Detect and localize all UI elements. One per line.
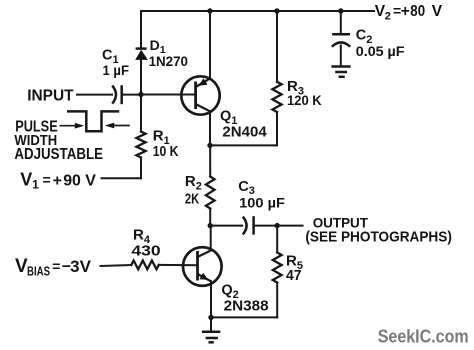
svg-text:80: 80 [410,3,425,20]
svg-text:47: 47 [286,267,302,284]
capacitor C1 [112,85,122,104]
node: rail junction at Q1 emitter [207,8,212,13]
svg-text:(SEE PHOTOGRAPHS): (SEE PHOTOGRAPHS) [305,229,452,246]
wire: input lead to C1 [77,94,112,96]
node: rail junction at C2 [338,8,343,13]
svg-text:2K: 2K [185,190,199,207]
svg-text:100 µF: 100 µF [239,194,285,210]
svg-text:=: = [43,171,51,187]
svg-text:+: + [53,172,62,189]
svg-text:=: = [52,258,60,274]
wire: D1 anode down to input node [140,60,142,95]
resistor R4 [131,261,159,270]
svg-text:+: + [401,3,410,20]
wire: Q1 emitter up to rail [209,11,211,78]
svg-text:V: V [20,169,32,189]
diode D1 (1N270) [135,49,148,60]
node: rail junction at R3 [274,8,279,13]
svg-text:V: V [85,172,96,189]
svg-text:ADJUSTABLE: ADJUSTABLE [14,146,103,163]
node: junction of Q2 emitter, R5 return, ground [208,315,213,320]
wire: input node to Q1 base [141,94,196,96]
wire: rail down to D1 cathode [140,11,142,48]
resistor R1 [136,95,145,179]
svg-text:90: 90 [63,172,81,189]
wire: R4 to Q2 base [159,264,198,266]
node: junction of R2, Q2 collector, C3 [208,223,213,228]
resistor R2 [206,145,215,225]
label V1 = +90 V [20,169,96,191]
transistor Q2 (2N388 NPN) [183,247,222,286]
wire: VBIAS lead to R4 [101,265,132,266]
wire: Q2 collector up to node B [210,226,212,251]
wire: C1 to input node [123,94,141,96]
svg-text:10 K: 10 K [153,143,179,160]
capacitor C2 [332,34,350,65]
transistor Q1 (2N404 PNP) [181,76,219,114]
wire: node B to C3 [210,225,242,227]
svg-text:0.05 µF: 0.05 µF [356,43,405,59]
wire: +80V top supply rail [141,10,374,12]
svg-text:SeekIC.com: SeekIC.com [378,327,469,347]
svg-text:1N270: 1N270 [149,53,189,69]
pulse width waveform symbol [60,111,130,131]
node: junction of Q1 collector, R3, R2 [207,143,212,148]
wire: rail to C2 top plate [340,11,342,34]
label PULSE WIDTH ADJUSTABLE [14,119,103,164]
resistor R5 [273,226,282,318]
wire: Q1 collector down to node A [209,111,211,145]
resistor R3 [272,11,281,145]
ground below C2 [331,67,350,77]
ground below Q2 [202,317,221,342]
svg-text:2N388: 2N388 [224,298,269,314]
wire: node A to R3 bottom [210,144,277,146]
label VBIAS = -3 V [15,256,92,278]
svg-text:V: V [432,3,443,20]
svg-text:INPUT: INPUT [27,88,74,105]
svg-text:2: 2 [385,11,391,23]
svg-text:V: V [80,257,92,276]
svg-text:3: 3 [70,257,79,276]
wire: R5 bottom to Q2 emitter node [211,316,277,318]
svg-text:430: 430 [131,242,160,259]
svg-text:2N404: 2N404 [222,124,266,140]
svg-text:1: 1 [32,178,39,192]
capacitor C3 [243,216,254,234]
wire: Q2 emitter down to ground node [210,281,212,317]
wire: C3 to output lead [255,225,303,227]
wire: R1 bottom to V1 terminal [102,177,141,179]
node: input junction of D1, C1, R1, Q1 base [138,92,143,97]
svg-text:1 µF: 1 µF [103,63,130,78]
svg-text:120 K: 120 K [287,92,322,108]
node: output junction at R5 top [275,223,280,228]
svg-text:BIAS: BIAS [27,264,50,278]
